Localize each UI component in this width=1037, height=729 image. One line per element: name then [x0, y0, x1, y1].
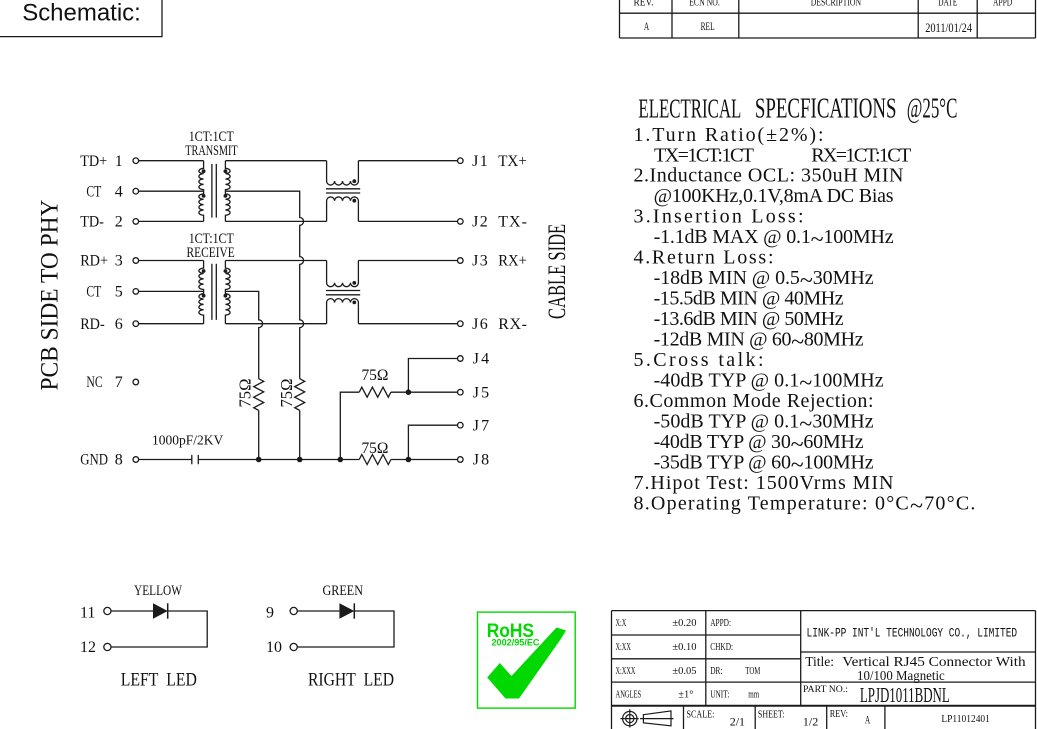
- title block grid: [612, 611, 1036, 729]
- electrical specifications text: [634, 92, 976, 519]
- resistor R1 75 ohm: [254, 379, 264, 411]
- choke L2 bottom winding: [327, 299, 359, 324]
- svg-text:RECEIVE: RECEIVE: [187, 244, 235, 261]
- wire T2 center tap to R1 (with hop): [225, 291, 262, 378]
- svg-text:RX+: RX+: [498, 252, 527, 270]
- wire CT4 pin to T1: [139, 190, 204, 192]
- L2 polarity dots: [352, 281, 356, 285]
- pin circle TD- 2: [133, 219, 139, 225]
- pin circle CT 4: [133, 188, 139, 194]
- svg-text:2/1: 2/1: [730, 714, 745, 728]
- wire R1 to ground bus: [258, 410, 260, 459]
- svg-text:4.Return Loss:: 4.Return Loss:: [634, 246, 774, 268]
- T1 polarity dots: [202, 169, 206, 173]
- svg-text:8: 8: [115, 452, 123, 469]
- transformer T2 core: [212, 264, 216, 320]
- junction dot J4/J5 branch: [406, 389, 412, 395]
- wire RD- pin to T2: [139, 323, 204, 325]
- svg-text:3: 3: [115, 253, 123, 270]
- junction dot R2/ground: [297, 457, 303, 463]
- LED D2 diode symbol: [339, 603, 354, 618]
- wire CT5 pin to T2: [139, 290, 204, 292]
- wire TD- pin to T1: [139, 220, 204, 222]
- svg-text:RX-: RX-: [498, 316, 527, 333]
- svg-text:2: 2: [115, 214, 123, 231]
- junction dot R3 branch/ground: [338, 457, 344, 463]
- svg-text:REV:: REV:: [830, 709, 848, 720]
- output circle J7: [458, 422, 464, 428]
- output circle J3: [458, 258, 464, 264]
- LED D1 pin circles: [104, 607, 111, 650]
- svg-text:A: A: [865, 714, 871, 727]
- resistor R2 75 ohm: [295, 379, 305, 411]
- wire junction to J7: [408, 425, 457, 459]
- wire choke L1 to J1: [358, 160, 457, 162]
- svg-text:CABLE SIDE: CABLE SIDE: [543, 224, 571, 319]
- svg-text:X:X: X:X: [616, 616, 627, 628]
- svg-text:GND: GND: [80, 451, 108, 469]
- svg-text:CHKD:: CHKD:: [710, 641, 733, 653]
- svg-text:@100KHz,0.1V,8mA DC Bias: @100KHz,0.1V,8mA DC Bias: [654, 185, 894, 207]
- RoHS checkmark: [487, 628, 566, 699]
- svg-text:RD+: RD+: [80, 253, 108, 270]
- svg-text:5: 5: [115, 284, 123, 301]
- svg-text:9: 9: [266, 605, 274, 622]
- wire junction to J4: [408, 359, 457, 393]
- projection symbol: [621, 709, 674, 727]
- svg-text:7.Hipot Test: 1500Vrms MIN: 7.Hipot Test: 1500Vrms MIN: [634, 472, 894, 494]
- svg-text:REL: REL: [701, 20, 715, 33]
- revision table: [620, 0, 1036, 38]
- wire T1 secondary top to choke L1: [225, 160, 326, 162]
- T2 polarity dots: [202, 269, 206, 273]
- wire T1 center tap to R2 and ground (with hops): [225, 191, 303, 379]
- svg-text:X:XXX: X:XXX: [616, 664, 636, 676]
- svg-text:SCALE:: SCALE:: [687, 710, 715, 721]
- pin circle CT 5: [133, 289, 139, 295]
- svg-text:PCB SIDE TO PHY: PCB SIDE TO PHY: [36, 200, 64, 391]
- LED D1 diode symbol: [153, 603, 168, 618]
- svg-text:DESCRIPTION: DESCRIPTION: [811, 0, 862, 8]
- svg-text:LPJD1011BDNL: LPJD1011BDNL: [860, 683, 950, 707]
- svg-text:6: 6: [115, 316, 123, 333]
- svg-text:ANGLES: ANGLES: [616, 688, 642, 700]
- svg-text:10: 10: [266, 639, 282, 656]
- choke L1 bottom winding: [327, 197, 359, 221]
- svg-text:6.Common Mode Rejection:: 6.Common Mode Rejection:: [634, 390, 874, 412]
- svg-text:J6: J6: [472, 316, 488, 333]
- svg-text:75Ω: 75Ω: [235, 379, 254, 408]
- wire R2 to ground bus: [299, 410, 301, 459]
- svg-text:A: A: [644, 20, 650, 33]
- resistor R4 75 ohm: [359, 455, 391, 465]
- svg-text:APPD:: APPD:: [710, 617, 731, 629]
- svg-text:YELLOW: YELLOW: [134, 581, 182, 598]
- junction dot J7/J8 branch: [406, 457, 412, 463]
- L1 polarity dots: [352, 179, 356, 183]
- svg-text:CT: CT: [86, 284, 101, 301]
- transformer T2 secondary winding: [225, 261, 230, 324]
- pin circle RD- 6: [133, 321, 139, 327]
- wire TD+ pin to T1: [139, 160, 204, 162]
- svg-text:X:XX: X:XX: [616, 640, 632, 652]
- svg-text:2011/01/24: 2011/01/24: [925, 22, 972, 35]
- output circle J4: [458, 356, 464, 362]
- svg-text:TX+: TX+: [498, 153, 527, 170]
- svg-text:CT: CT: [86, 184, 101, 201]
- wire GND pin to capacitor C1: [139, 459, 192, 461]
- choke L1 core: [326, 189, 360, 193]
- output circle J8: [458, 457, 464, 463]
- ground bus wire: [198, 459, 457, 461]
- output circle J2: [458, 219, 464, 225]
- svg-text:TOM: TOM: [745, 664, 760, 676]
- svg-text:UNIT:: UNIT:: [710, 688, 729, 700]
- pin circle GND 8: [133, 457, 139, 463]
- svg-text:2.Inductance OCL: 350uH MIN: 2.Inductance OCL: 350uH MIN: [634, 164, 904, 186]
- svg-text:-13.6dB MIN @ 50MHz: -13.6dB MIN @ 50MHz: [654, 308, 844, 330]
- schematic title box: [0, 0, 162, 37]
- output circle J1: [458, 158, 464, 164]
- wire T2 secondary top to choke L2: [225, 260, 326, 262]
- svg-text:1/2: 1/2: [803, 714, 818, 728]
- svg-text:J1: J1: [472, 153, 488, 170]
- svg-text:1: 1: [115, 153, 123, 170]
- wire T2 secondary bottom to choke L2: [225, 323, 326, 325]
- svg-text:TD+: TD+: [80, 153, 107, 170]
- svg-text:J5: J5: [473, 384, 489, 401]
- svg-text:7: 7: [115, 374, 123, 391]
- svg-text:3.Insertion Loss:: 3.Insertion Loss:: [634, 205, 804, 227]
- svg-text:10/100 Magnetic: 10/100 Magnetic: [857, 668, 945, 683]
- svg-text:12: 12: [80, 639, 96, 656]
- svg-text:LEFT LED: LEFT LED: [121, 668, 197, 690]
- transformer T1 primary winding: [199, 161, 204, 222]
- svg-text:ECN NO.: ECN NO.: [689, 0, 720, 8]
- svg-text:Title:: Title:: [805, 654, 834, 669]
- svg-text:Schematic:: Schematic:: [22, 0, 141, 26]
- svg-text:11: 11: [80, 605, 95, 622]
- svg-text:DATE: DATE: [938, 0, 958, 8]
- wire choke L2 to J6: [358, 323, 457, 325]
- svg-text:2002/95/EC: 2002/95/EC: [492, 638, 540, 648]
- choke L2 top winding: [327, 261, 359, 287]
- svg-text:±0.20: ±0.20: [672, 618, 696, 629]
- svg-text:J2: J2: [472, 214, 488, 231]
- svg-text:REV.: REV.: [633, 0, 653, 9]
- svg-text:PART NO.:: PART NO.:: [803, 685, 848, 695]
- capacitor C1 plates: [192, 455, 199, 464]
- svg-text:DR:: DR:: [710, 665, 722, 677]
- svg-text:NC: NC: [86, 375, 102, 392]
- svg-text:J8: J8: [473, 452, 489, 469]
- svg-text:5.Cross talk:: 5.Cross talk:: [634, 349, 764, 371]
- svg-text:±1°: ±1°: [678, 689, 693, 700]
- RoHS logo box: [478, 612, 576, 708]
- svg-text:1000pF/2KV: 1000pF/2KV: [152, 432, 223, 447]
- svg-text:±0.05: ±0.05: [672, 666, 696, 677]
- LED D2 (green) wires: [297, 611, 394, 647]
- svg-text:@25°C: @25°C: [907, 93, 958, 124]
- output circle J6: [458, 321, 464, 327]
- svg-text:1.Turn Ratio(±2%):: 1.Turn Ratio(±2%):: [634, 124, 824, 146]
- svg-text:TX=1CT:1CT: TX=1CT:1CT: [654, 144, 754, 166]
- svg-text:RD-: RD-: [80, 316, 105, 333]
- svg-text:RIGHT LED: RIGHT LED: [308, 668, 394, 690]
- svg-text:-15.5dB MIN @ 40MHz: -15.5dB MIN @ 40MHz: [654, 287, 844, 309]
- wire choke L1 to J2: [358, 220, 457, 222]
- pin circle NC 7: [133, 379, 139, 385]
- svg-text:ELECTRICAL: ELECTRICAL: [638, 92, 741, 124]
- svg-text:GREEN: GREEN: [323, 582, 364, 598]
- pin circle RD+ 3: [133, 258, 139, 264]
- svg-text:J7: J7: [473, 417, 489, 434]
- svg-text:SHEET:: SHEET:: [758, 710, 785, 721]
- LED D1 (yellow) wires: [111, 611, 208, 647]
- output circle J5: [458, 389, 464, 395]
- svg-text:J3: J3: [472, 253, 488, 270]
- svg-text:J4: J4: [473, 351, 489, 368]
- svg-text:mm: mm: [748, 688, 759, 700]
- svg-text:TX-: TX-: [498, 214, 527, 231]
- svg-text:75Ω: 75Ω: [362, 367, 389, 384]
- svg-text:LINK-PP INT'L TECHNOLOGY CO.,: LINK-PP INT'L TECHNOLOGY CO., LIMITED: [807, 627, 1018, 641]
- wire choke L2 to J3: [358, 260, 457, 262]
- transformer T1 core: [212, 164, 216, 218]
- svg-text:TRANSMIT: TRANSMIT: [185, 142, 238, 158]
- svg-text:LP11012401: LP11012401: [941, 713, 989, 725]
- LED D2 pin circles: [290, 607, 297, 650]
- svg-text:APPD: APPD: [993, 0, 1013, 8]
- pin circle TD+ 1: [133, 158, 139, 164]
- wire branch to R3: [340, 392, 359, 459]
- svg-text:8.Operating Temperature: 0°C~7: 8.Operating Temperature: 0°C~70°C.: [634, 492, 976, 519]
- choke L2 core: [326, 291, 360, 295]
- resistor R3 75 ohm: [359, 387, 391, 397]
- svg-text:TD-: TD-: [80, 214, 104, 231]
- wire T1 secondary bottom to choke L1: [225, 220, 326, 222]
- svg-text:SPECFICATIONS: SPECFICATIONS: [755, 94, 897, 124]
- svg-text:75Ω: 75Ω: [362, 440, 389, 457]
- wire RD+ pin to T2: [139, 260, 204, 262]
- junction dot R1/ground: [256, 457, 262, 463]
- choke L1 top winding: [327, 161, 359, 185]
- svg-text:±0.10: ±0.10: [672, 642, 696, 653]
- transformer T2 primary winding: [199, 261, 204, 324]
- wire R3 to J5: [391, 391, 458, 393]
- svg-text:75Ω: 75Ω: [277, 379, 296, 408]
- svg-text:RX=1CT:1CT: RX=1CT:1CT: [811, 144, 911, 166]
- svg-text:4: 4: [115, 183, 123, 200]
- transformer T1 secondary winding: [225, 161, 230, 222]
